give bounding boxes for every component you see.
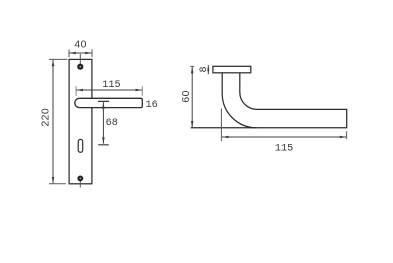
svg-text:115: 115 (275, 143, 293, 154)
top screw (77, 64, 83, 70)
dimension 60 top tick (190, 65, 194, 67)
dimension 220 extension lines (49, 59, 67, 183)
handle profile outer edge + grip (191, 73, 347, 128)
keyhole (78, 139, 83, 152)
backplate outline (69, 59, 92, 183)
dimension 115 (front) line (76, 89, 142, 91)
svg-text:16: 16 (145, 100, 157, 111)
dimension 115 (side) extension lines (221, 108, 346, 140)
svg-text:115: 115 (102, 80, 120, 91)
dimension 68 line (102, 102, 104, 144)
dimension 40 extension lines (69, 49, 92, 57)
lever handle bar (front view) (75, 98, 142, 107)
top screw centre line (79, 54, 81, 67)
svg-text:220: 220 (41, 108, 52, 127)
dimension 60 line (191, 67, 193, 128)
dimension 220 line (52, 60, 54, 184)
rose / plate section (213, 66, 251, 73)
dimension 68 ticks (98, 101, 109, 144)
svg-text:40: 40 (74, 39, 86, 50)
dimension 40 line (69, 52, 92, 54)
dimension 115 (front) extension lines (76, 86, 142, 96)
handle neck outer-left curve (222, 73, 256, 128)
dimension 115 (side) line (222, 136, 346, 138)
svg-text:8: 8 (199, 66, 210, 72)
dimension 8 line (207, 65, 209, 74)
svg-text:60: 60 (181, 90, 192, 102)
bottom screw (77, 175, 83, 181)
bottom screw centre line (79, 179, 81, 188)
svg-text:68: 68 (106, 118, 118, 129)
